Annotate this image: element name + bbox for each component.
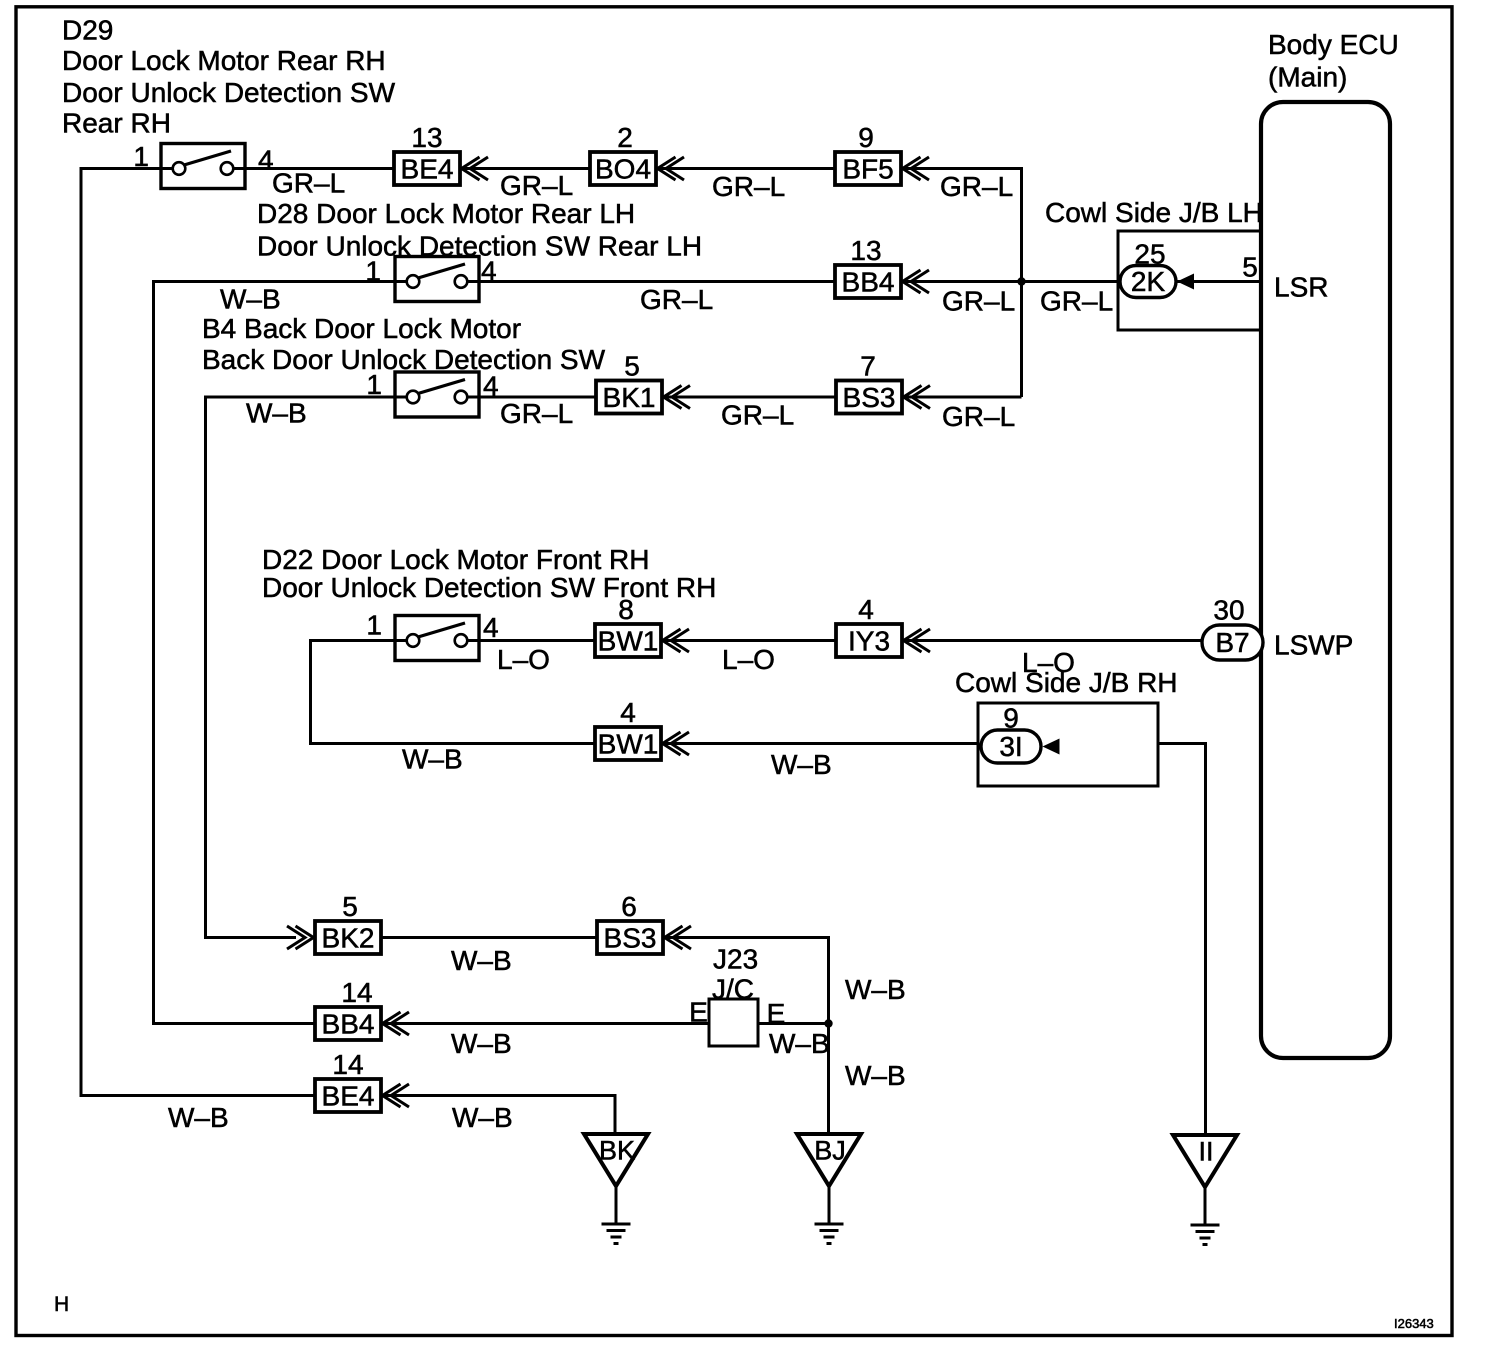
svg-text:5: 5 (624, 351, 640, 382)
svg-text:4: 4 (481, 256, 497, 287)
svg-text:H: H (54, 1293, 69, 1316)
svg-text:GR–L: GR–L (712, 171, 785, 202)
svg-text:II: II (1198, 1137, 1213, 1167)
svg-text:BE4: BE4 (401, 154, 454, 185)
svg-text:14: 14 (332, 1049, 363, 1080)
svg-text:Door Unlock Detection SW Rear: Door Unlock Detection SW Rear LH (257, 231, 702, 262)
svg-text:W–B: W–B (771, 749, 832, 780)
svg-text:GR–L: GR–L (500, 398, 573, 429)
svg-text:2K: 2K (1131, 266, 1166, 297)
svg-text:Back Door Unlock Detection SW: Back Door Unlock Detection SW (202, 344, 606, 375)
svg-text:6: 6 (621, 891, 637, 922)
svg-text:D28 Door Lock Motor Rear LH: D28 Door Lock Motor Rear LH (257, 198, 635, 229)
svg-text:W–B: W–B (845, 974, 906, 1005)
svg-text:BB4: BB4 (842, 267, 895, 298)
svg-text:Door Unlock Detection SW: Door Unlock Detection SW (62, 77, 396, 108)
svg-text:GR–L: GR–L (942, 286, 1015, 317)
svg-text:E: E (767, 998, 786, 1029)
svg-text:GR–L: GR–L (1040, 286, 1113, 317)
svg-text:BF5: BF5 (842, 154, 893, 185)
svg-text:Door Unlock Detection SW Front: Door Unlock Detection SW Front RH (262, 572, 716, 603)
svg-text:IY3: IY3 (848, 626, 890, 657)
svg-text:BS3: BS3 (843, 382, 896, 413)
svg-text:4: 4 (483, 612, 499, 643)
svg-text:W–B: W–B (168, 1102, 229, 1133)
svg-text:J23: J23 (713, 944, 758, 975)
svg-text:4: 4 (483, 371, 499, 402)
svg-text:E: E (689, 997, 708, 1028)
svg-text:GR–L: GR–L (500, 170, 573, 201)
svg-text:BS3: BS3 (604, 923, 657, 954)
svg-text:5: 5 (1242, 252, 1258, 283)
svg-text:Door Lock Motor Rear RH: Door Lock Motor Rear RH (62, 45, 386, 76)
svg-text:BB4: BB4 (322, 1009, 375, 1040)
svg-text:BW1: BW1 (598, 729, 659, 760)
svg-text:D29: D29 (62, 15, 113, 46)
svg-text:5: 5 (342, 891, 358, 922)
svg-text:W–B: W–B (452, 1102, 513, 1133)
svg-text:Rear RH: Rear RH (62, 108, 171, 139)
svg-text:W–B: W–B (451, 945, 512, 976)
svg-text:4: 4 (620, 697, 636, 728)
svg-text:GR–L: GR–L (721, 400, 794, 431)
svg-text:B4 Back Door Lock Motor: B4 Back Door Lock Motor (202, 313, 521, 344)
svg-text:2: 2 (617, 122, 633, 153)
svg-text:W–B: W–B (402, 744, 463, 775)
svg-text:BJ: BJ (814, 1136, 846, 1166)
svg-text:1: 1 (365, 256, 381, 287)
svg-text:L–O: L–O (1022, 647, 1075, 678)
svg-text:BK2: BK2 (322, 923, 375, 954)
svg-text:J/C: J/C (712, 974, 754, 1005)
svg-text:13: 13 (411, 122, 442, 153)
svg-text:BW1: BW1 (598, 626, 659, 657)
svg-text:13: 13 (850, 235, 881, 266)
svg-text:1: 1 (366, 369, 382, 400)
svg-text:GR–L: GR–L (640, 284, 713, 315)
svg-text:9: 9 (1003, 703, 1019, 734)
svg-text:GR–L: GR–L (942, 401, 1015, 432)
svg-text:14: 14 (341, 977, 372, 1008)
svg-text:GR–L: GR–L (940, 171, 1013, 202)
svg-text:BK: BK (599, 1136, 635, 1166)
svg-text:30: 30 (1213, 595, 1244, 626)
svg-text:I26343: I26343 (1394, 1316, 1434, 1331)
svg-text:W–B: W–B (769, 1028, 830, 1059)
svg-text:L–O: L–O (722, 644, 775, 675)
svg-text:B7: B7 (1215, 627, 1249, 658)
svg-text:(Main): (Main) (1268, 62, 1347, 93)
svg-text:9: 9 (858, 122, 874, 153)
svg-text:W–B: W–B (845, 1060, 906, 1091)
svg-text:1: 1 (366, 610, 382, 641)
svg-text:1: 1 (133, 141, 149, 172)
svg-text:BE4: BE4 (322, 1081, 375, 1112)
svg-text:D22 Door Lock Motor Front RH: D22 Door Lock Motor Front RH (262, 544, 649, 575)
svg-text:Body ECU: Body ECU (1268, 29, 1399, 60)
svg-text:W–B: W–B (451, 1028, 512, 1059)
svg-text:7: 7 (860, 351, 876, 382)
svg-text:LSWP: LSWP (1274, 630, 1353, 661)
svg-text:4: 4 (858, 594, 874, 625)
svg-text:LSR: LSR (1274, 272, 1328, 303)
svg-text:L–O: L–O (497, 644, 550, 675)
svg-text:BK1: BK1 (603, 382, 656, 413)
svg-text:Cowl Side J/B LH: Cowl Side J/B LH (1045, 197, 1263, 228)
svg-text:W–B: W–B (246, 398, 307, 429)
svg-text:GR–L: GR–L (272, 168, 345, 199)
svg-text:W–B: W–B (220, 284, 281, 315)
svg-text:25: 25 (1134, 239, 1165, 270)
svg-text:BO4: BO4 (595, 154, 651, 185)
svg-text:3I: 3I (999, 731, 1022, 762)
